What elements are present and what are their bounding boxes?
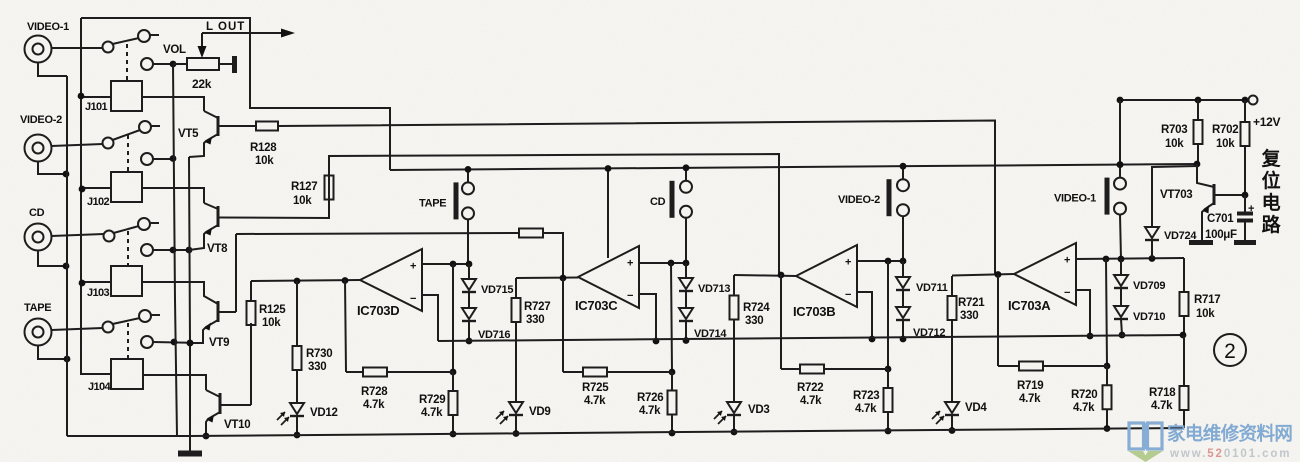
svg-text:R724: R724 <box>743 302 770 314</box>
diode VD716 <box>462 308 476 319</box>
op-amp IC703C <box>578 246 639 308</box>
wire: CD shield to ground bus <box>38 251 66 267</box>
relay J102 <box>111 172 142 202</box>
svg-text:R719: R719 <box>1017 380 1043 392</box>
wire: VIDEO-1 button to IC703A + input <box>1120 215 1121 259</box>
svg-text:−: − <box>845 289 851 301</box>
svg-text:−: − <box>627 290 633 302</box>
diode VD713 <box>685 263 687 278</box>
op-amp IC703B <box>796 245 857 307</box>
svg-text:R730: R730 <box>306 348 332 360</box>
wire: S4 lower throw to emitter bus <box>153 341 190 344</box>
resistor R703 10k <box>1197 100 1199 120</box>
wire: VIDEO-1 signal lead <box>52 47 103 49</box>
resistor R723 4.7k <box>887 369 889 388</box>
svg-text:路: 路 <box>1262 213 1282 236</box>
svg-text:VT703: VT703 <box>1160 189 1192 201</box>
svg-text:330: 330 <box>308 361 326 373</box>
wire: R127 line to IC703B output node <box>329 154 779 275</box>
svg-text:VD9: VD9 <box>529 406 550 418</box>
diode VD724 <box>1152 164 1197 227</box>
svg-text:VD709: VD709 <box>1133 280 1165 292</box>
svg-text:10k: 10k <box>1165 138 1184 150</box>
input jack VIDEO-1 <box>25 36 52 63</box>
svg-text:10k: 10k <box>262 317 281 329</box>
svg-text:R723: R723 <box>853 390 879 402</box>
LED VD4 <box>951 340 953 402</box>
switch S1 (VIDEO-1 select) <box>103 42 114 53</box>
resistor R717 10k <box>1183 258 1185 292</box>
svg-text:VIDEO-2: VIDEO-2 <box>838 194 880 206</box>
svg-text:4.7k: 4.7k <box>1019 393 1041 405</box>
wire: R128 output line to IC703A output node <box>278 121 995 275</box>
wire: J102 left pin <box>82 187 111 189</box>
wire: main ground bus <box>67 435 190 437</box>
svg-text:IC703D: IC703D <box>357 303 399 318</box>
svg-text:10k: 10k <box>1216 138 1235 150</box>
resistor R729 4.7k <box>452 372 454 391</box>
svg-text:CD: CD <box>29 207 45 219</box>
svg-text:+: + <box>627 258 633 270</box>
wire: wiper to L OUT with arrows <box>201 33 203 52</box>
wire: top pushbutton bus <box>390 164 1198 170</box>
wire: pot left lead <box>173 63 187 65</box>
relay J101 <box>111 81 142 111</box>
relay J104 <box>111 359 143 389</box>
wire: VIDEO-2 signal lead <box>52 144 103 146</box>
pushbutton VIDEO-2 <box>902 166 904 179</box>
wire: IC703B - input to reference bus <box>857 292 872 339</box>
wire: IC703A output line <box>952 274 1014 276</box>
resistor R702 10k <box>1244 100 1246 122</box>
svg-text:R722: R722 <box>797 382 823 394</box>
svg-text:4.7k: 4.7k <box>639 405 661 417</box>
svg-text:www.520101.com: www.520101.com <box>1169 448 1291 460</box>
pushbutton CD <box>685 168 687 181</box>
svg-text:VT10: VT10 <box>224 419 250 431</box>
svg-text:330: 330 <box>960 310 978 322</box>
wire: S3 lower throw to bus <box>153 249 189 251</box>
svg-text:VD713: VD713 <box>698 283 730 295</box>
ground bar (VT703 emitter) <box>1189 240 1213 245</box>
svg-text:+12V: +12V <box>1253 115 1280 129</box>
svg-text:VIDEO-1: VIDEO-1 <box>27 21 69 33</box>
wire: feedback riser B <box>887 261 889 369</box>
svg-text:CD: CD <box>650 196 666 208</box>
wire: jack shield bus (vertical) <box>66 76 68 436</box>
svg-text:C701: C701 <box>1207 213 1234 225</box>
wire: J101 right pin to VT5 <box>142 97 204 111</box>
wire: TAPE signal lead <box>52 328 103 330</box>
svg-text:4.7k: 4.7k <box>421 407 443 419</box>
svg-text:L OUT: L OUT <box>206 21 245 33</box>
wire: relay coil bus (vertical) <box>80 18 82 375</box>
svg-text:R729: R729 <box>419 394 445 406</box>
svg-text:+: + <box>1064 255 1070 267</box>
wire: IC703A - input to reference bus <box>1076 290 1090 336</box>
wire: IC703C + input <box>639 262 686 264</box>
svg-text:R128: R128 <box>250 142 277 154</box>
wire: emitter bus (vertical x=189) <box>189 157 190 436</box>
resistor R727 330 <box>515 278 517 298</box>
wire: CD button to IC703C + input <box>685 218 687 263</box>
wire: VIDEO-1 riser from +12V rail to bus <box>1119 100 1121 165</box>
svg-text:2: 2 <box>1224 340 1236 363</box>
svg-text:−: − <box>410 293 416 305</box>
svg-text:R702: R702 <box>1212 124 1238 136</box>
svg-text:R720: R720 <box>1071 389 1097 401</box>
capacitor C701 100uF <box>1244 195 1246 213</box>
diode VD715 <box>462 279 476 290</box>
resistor R730 330 <box>296 281 298 346</box>
svg-text:VD4: VD4 <box>965 402 987 414</box>
svg-text:R725: R725 <box>582 382 609 394</box>
input jack TAPE <box>25 319 52 346</box>
svg-text:22k: 22k <box>192 77 212 91</box>
wire: top-left rail from relay bus to L channel area <box>81 18 390 170</box>
wire: CD signal lead <box>52 234 104 236</box>
resistor R725 4.7k <box>562 278 564 372</box>
wire: IC703B output line <box>734 275 796 276</box>
wire: IC703D output line <box>251 280 360 281</box>
wire: IC703C - input to reference bus <box>639 294 656 341</box>
svg-text:IC703C: IC703C <box>575 298 618 313</box>
resistor R128 10k <box>256 122 278 131</box>
svg-text:+: + <box>1248 203 1254 215</box>
resistor R125 10k <box>250 281 252 301</box>
svg-text:VD12: VD12 <box>310 407 338 419</box>
svg-text:家电维修资料网: 家电维修资料网 <box>1167 423 1292 444</box>
svg-text:−: − <box>1064 287 1070 299</box>
wire: IC703D - input to reference bus <box>422 295 438 341</box>
wire: feedback riser D <box>452 264 454 372</box>
svg-text:R125: R125 <box>259 304 286 316</box>
wire: TAPE shield to ground bus <box>38 346 67 360</box>
wire: TAPE button to IC703D + input <box>467 219 469 264</box>
wire: supply riser to IC703C (quad op-amp V+ pin) <box>607 169 609 259</box>
svg-text:R727: R727 <box>524 301 550 313</box>
svg-text:R127: R127 <box>291 181 317 193</box>
resistor R719 4.7k <box>997 275 999 367</box>
wire: J101 left pin <box>81 96 111 98</box>
svg-text:J103: J103 <box>87 287 110 299</box>
resistor R721 330 <box>951 276 953 296</box>
svg-text:R721: R721 <box>958 297 985 309</box>
wire: S1 lower throw to volume bus <box>153 63 187 65</box>
svg-text:复: 复 <box>1261 147 1282 170</box>
svg-text:4.7k: 4.7k <box>800 395 822 407</box>
op-amp IC703A <box>1014 243 1076 305</box>
wire: VIDEO-2 shield to ground bus <box>38 162 66 175</box>
resistor R722 4.7k <box>780 275 782 369</box>
svg-text:J104: J104 <box>88 381 112 393</box>
svg-text:IC703B: IC703B <box>793 304 835 319</box>
svg-text:位: 位 <box>1262 169 1281 192</box>
switch S4 (TAPE select) <box>103 322 114 333</box>
svg-text:+: + <box>845 257 851 269</box>
diode VD714 <box>679 308 693 319</box>
svg-text:VD3: VD3 <box>748 404 769 416</box>
wire: VT10 collector riser to R125 <box>250 323 252 405</box>
wire: IC703D + input <box>422 263 469 265</box>
wire: S3 dashed link to relay J103 <box>127 231 129 265</box>
svg-text:VD724: VD724 <box>1164 230 1197 242</box>
+12V terminal <box>1249 96 1258 105</box>
svg-text:4.7k: 4.7k <box>584 395 606 407</box>
svg-text:VOL: VOL <box>163 44 186 56</box>
svg-text:10k: 10k <box>1196 308 1215 320</box>
switch S2 (VIDEO-2 select) <box>103 138 114 149</box>
resistor R127 10k <box>328 176 330 219</box>
svg-text:R728: R728 <box>361 386 388 398</box>
svg-text:VD715: VD715 <box>481 284 513 296</box>
resistor R720 4.7k <box>1106 366 1108 385</box>
circled number 2 <box>1214 334 1246 366</box>
input jack VIDEO-2 <box>25 135 52 162</box>
svg-text:IC703A: IC703A <box>1008 298 1051 313</box>
svg-text:VIDEO-2: VIDEO-2 <box>20 114 62 126</box>
wire: J104 left pin <box>82 373 111 375</box>
ground symbol <box>189 436 191 452</box>
wire: +12V rail <box>1120 99 1248 101</box>
diode VD710 <box>1114 306 1128 317</box>
svg-text:TAPE: TAPE <box>419 197 446 209</box>
wire: IC703B + input <box>857 260 903 262</box>
watermark logo (open book) <box>1129 423 1162 449</box>
svg-text:VIDEO-1: VIDEO-1 <box>1054 193 1096 205</box>
resistor R728 4.7k <box>345 280 346 372</box>
LED VD12 <box>296 375 298 403</box>
svg-text:TAPE: TAPE <box>24 302 51 314</box>
svg-text:J101: J101 <box>85 101 108 113</box>
op-amp IC703D <box>360 249 422 311</box>
svg-text:100μF: 100μF <box>1205 229 1237 241</box>
wire: feedback riser C <box>671 263 672 372</box>
wire: minus reference bus <box>438 335 1183 341</box>
wire: pot right lead and terminal bar <box>219 63 232 65</box>
svg-text:4.7k: 4.7k <box>1151 400 1173 412</box>
resistor R726 4.7k <box>671 372 673 391</box>
resistor R724 330 <box>733 275 735 296</box>
wire: S2 dashed link to relay J102 <box>127 135 129 171</box>
svg-text:330: 330 <box>745 315 763 327</box>
diode VD709 <box>1120 259 1122 275</box>
svg-text:4.7k: 4.7k <box>1073 402 1095 414</box>
svg-text:4.7k: 4.7k <box>363 399 385 411</box>
svg-text:R717: R717 <box>1194 294 1220 306</box>
svg-text:10k: 10k <box>255 155 274 167</box>
svg-text:VD711: VD711 <box>916 282 948 294</box>
resistor R718 4.7k <box>1183 335 1185 386</box>
svg-text:VT8: VT8 <box>207 243 228 255</box>
svg-text:330: 330 <box>526 314 544 326</box>
wire: S4 dashed link to relay J104 <box>127 323 129 358</box>
pushbutton TAPE <box>467 169 469 182</box>
svg-text:R703: R703 <box>1161 124 1187 136</box>
relay J103 <box>111 266 142 296</box>
wire: feedback riser A <box>1106 259 1107 366</box>
wire: VIDEO-2 button to IC703B + input <box>902 216 904 261</box>
diode VD712 <box>896 307 910 318</box>
wire: J103 right pin to VT9 <box>142 282 204 294</box>
wire: select/ground bus (vertical x=173) <box>173 64 177 436</box>
wire: S1 dashed link to relay J101 <box>126 44 128 80</box>
svg-text:电: 电 <box>1262 191 1281 214</box>
svg-text:VD710: VD710 <box>1133 311 1165 323</box>
ground bar (C701) <box>1234 240 1256 245</box>
wire: S2 lower throw to bus <box>153 158 173 160</box>
svg-text:+: + <box>410 261 416 273</box>
svg-text:R718: R718 <box>1149 387 1176 399</box>
pushbutton VIDEO-1 <box>1119 165 1121 178</box>
svg-text:VT9: VT9 <box>209 337 229 349</box>
wire: J104 right pin to VT10 <box>143 375 206 390</box>
LED VD3 <box>733 340 735 402</box>
svg-text:10k: 10k <box>293 195 312 207</box>
LED VD9 <box>515 341 517 402</box>
diode VD711 <box>902 261 904 277</box>
svg-text:J102: J102 <box>87 196 110 208</box>
input jack CD <box>25 224 52 251</box>
wire: VT9 collector riser to IC703C line <box>235 234 237 312</box>
wire: VIDEO-1 shield to ground bus <box>38 63 67 77</box>
svg-text:R726: R726 <box>637 392 663 404</box>
svg-text:VD716: VD716 <box>478 329 510 341</box>
wire: VT9 line with series resistor to IC703C output <box>236 233 519 234</box>
wire: IC703C output line <box>516 277 578 280</box>
wire: IC703A + input bus <box>1076 258 1184 259</box>
switch S3 (CD select) <box>104 231 115 242</box>
wire: J102 right pin to VT8 <box>142 188 204 203</box>
svg-text:4.7k: 4.7k <box>855 403 877 415</box>
svg-text:VT5: VT5 <box>178 128 199 140</box>
wire: J103 left pin <box>82 281 111 283</box>
